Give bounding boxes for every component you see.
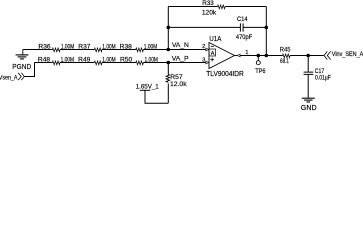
wire to opamp pin2 (143, 49, 206, 51)
resistor R37 (94, 48, 102, 52)
pin 3 arrow (206, 61, 209, 64)
node junction dot C14 left (167, 26, 171, 30)
resistor R50 (136, 61, 144, 65)
resistor R36 (52, 48, 60, 52)
svg-text:TLV9004IDR: TLV9004IDR (206, 71, 243, 78)
resistor R48 (52, 61, 60, 65)
svg-text:R36: R36 (38, 44, 51, 51)
svg-text:1.65V_1: 1.65V_1 (136, 83, 159, 90)
node junction dot C14 right (265, 26, 269, 30)
node junction dot C17 (306, 54, 310, 58)
wire (60, 49, 94, 51)
svg-text:R48: R48 (38, 57, 51, 64)
svg-text:GND: GND (301, 103, 317, 111)
wire bottom input row (35, 62, 53, 64)
feedback left vertical wire (167, 7, 169, 50)
wire (307, 75, 309, 98)
minus sign (211, 45, 214, 47)
svg-text:Vinv_SEN_A: Vinv_SEN_A (332, 51, 363, 58)
feedback right vertical wire (265, 7, 267, 56)
resistor R45 (283, 54, 291, 58)
svg-text:R37: R37 (78, 44, 91, 51)
svg-text:C14: C14 (237, 16, 248, 23)
resistor R49 (94, 61, 102, 65)
ground GND symbol (302, 98, 315, 102)
resistor R57 vertical (167, 63, 169, 75)
svg-text:A: A (211, 51, 215, 57)
svg-text:120k: 120k (202, 10, 217, 17)
wire output row (240, 55, 283, 57)
connector Vinv_SEN_A (324, 51, 331, 59)
wire (225, 6, 266, 8)
pin 1 arrow (237, 54, 240, 57)
svg-text:VA_P: VA_P (172, 56, 189, 63)
op-amp U1A body (209, 43, 235, 69)
capacitor C17 (307, 56, 309, 72)
resistor R33 (218, 5, 226, 9)
svg-text:TP6: TP6 (255, 68, 266, 75)
wire C14 row (168, 26, 240, 28)
svg-text:PGND: PGND (12, 62, 31, 71)
svg-text:VA_N: VA_N (172, 42, 189, 49)
feedback top wire (168, 6, 217, 8)
resistor R38 (136, 48, 144, 52)
node junction dot VA_P (167, 61, 171, 65)
capacitor C14 (240, 23, 243, 31)
testpoint TP6 (257, 56, 259, 61)
svg-text:R33: R33 (202, 0, 214, 7)
wire (102, 49, 136, 51)
wire (102, 62, 136, 64)
svg-text:3: 3 (202, 57, 205, 63)
output pin 1 (235, 55, 238, 57)
svg-text:Vsen_A: Vsen_A (0, 74, 18, 81)
svg-text:R45: R45 (280, 47, 291, 54)
plus sign (210, 58, 214, 62)
pin 2 arrow (206, 48, 209, 51)
node junction dot TP6 (257, 54, 261, 58)
svg-text:R50: R50 (120, 57, 133, 64)
svg-text:R49: R49 (78, 57, 91, 64)
wire to opamp pin3 (143, 62, 206, 64)
wire (60, 62, 94, 64)
node junction dot feedback-output (265, 54, 269, 58)
svg-text:0.01µF: 0.01µF (315, 74, 331, 81)
svg-text:12.0k: 12.0k (170, 81, 188, 88)
svg-text:68.1: 68.1 (280, 58, 289, 65)
wire from Vsen_A (24, 63, 34, 77)
svg-text:2: 2 (202, 44, 205, 50)
ground PGND symbol (16, 50, 29, 59)
svg-text:R38: R38 (120, 44, 133, 51)
section box A (209, 49, 216, 56)
svg-text:U1A: U1A (209, 35, 221, 43)
wire (290, 55, 324, 57)
power flag 1.65V_1 (140, 89, 150, 91)
wire (244, 26, 267, 28)
wire top input row (23, 49, 53, 51)
wire to 1.65V_1 (145, 90, 168, 103)
node junction dot VA_N (167, 48, 171, 52)
svg-text:470pF: 470pF (236, 34, 253, 41)
